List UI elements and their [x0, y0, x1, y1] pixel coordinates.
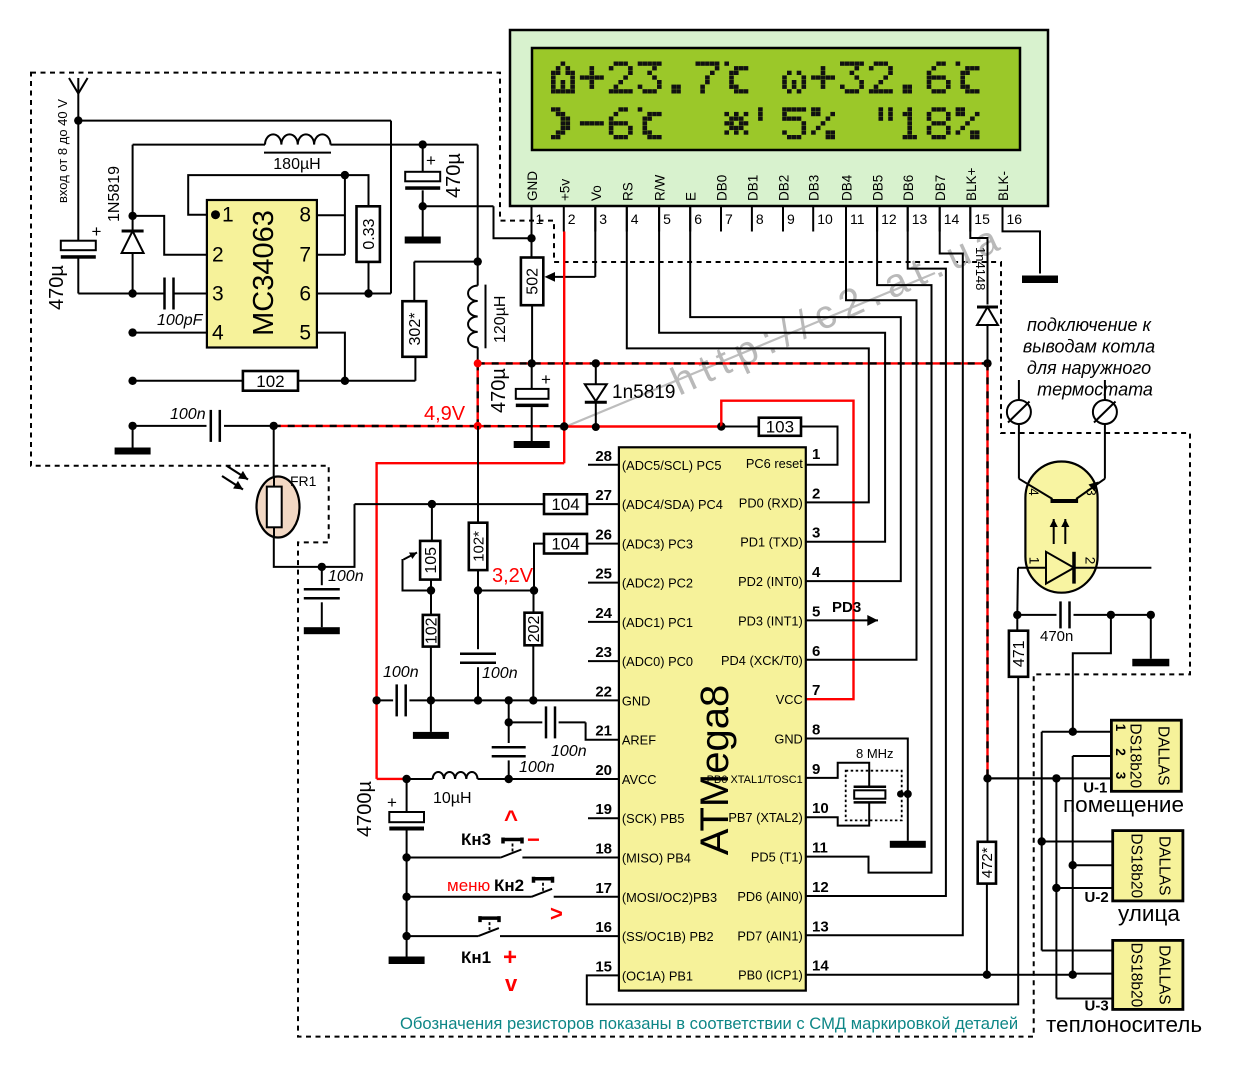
node 3.2V	[474, 586, 482, 594]
wire LCD gnd link	[423, 206, 532, 238]
svg-text:19: 19	[595, 801, 612, 818]
resistor 302*	[402, 262, 477, 357]
red rail drop	[477, 363, 479, 426]
label FR1	[290, 473, 317, 489]
svg-text:11: 11	[850, 211, 865, 227]
svg-text:v: v	[505, 971, 518, 996]
wire 3.2V row	[478, 590, 534, 592]
terminal right	[1093, 380, 1117, 424]
resistor 102 timing	[243, 371, 298, 391]
ground opto	[1132, 615, 1169, 666]
svg-text:4,9V: 4,9V	[424, 403, 466, 425]
label Кн2	[494, 876, 524, 895]
svg-text:5: 5	[812, 603, 820, 620]
U2 left pin labels	[595, 448, 723, 984]
svg-text:теплоноситель: теплоноситель	[1046, 1012, 1202, 1037]
opto led arrows	[1050, 519, 1070, 544]
svg-text:−: −	[527, 827, 540, 852]
node aref split	[505, 718, 513, 726]
wire U1 pin3	[988, 777, 1112, 779]
node U1 pin1	[1069, 728, 1077, 736]
capacitor 100pF	[157, 278, 204, 330]
capacitor 100n FR1	[304, 567, 364, 634]
svg-text:DS18b20: DS18b20	[1128, 833, 1145, 898]
red rail to sensors	[986, 363, 988, 778]
svg-text:472*: 472*	[979, 847, 996, 878]
svg-text:PD3 (INT1): PD3 (INT1)	[738, 613, 803, 628]
mark down red	[505, 971, 518, 996]
wire GND row	[377, 664, 619, 716]
label Кн3	[461, 830, 491, 849]
svg-text:+: +	[387, 793, 397, 812]
svg-text:4: 4	[212, 322, 224, 345]
wire XTAL2	[806, 802, 869, 825]
svg-text:+: +	[541, 370, 551, 389]
svg-text:1: 1	[222, 204, 234, 227]
svg-text:PD4 (XCK/T0): PD4 (XCK/T0)	[721, 653, 803, 668]
svg-text:DB4: DB4	[840, 174, 855, 201]
svg-text:для наружного: для наружного	[1027, 358, 1151, 378]
note text	[400, 1014, 1018, 1033]
capacitor 100n main	[133, 406, 274, 442]
svg-text:ATMega8: ATMega8	[693, 685, 737, 855]
svg-text:+: +	[426, 151, 436, 170]
chip U2 ATMega8	[619, 447, 806, 990]
svg-text:PD7 (AIN1): PD7 (AIN1)	[737, 928, 802, 943]
wire vdd chain	[1056, 778, 1112, 998]
svg-text:0.33: 0.33	[361, 218, 378, 249]
diode VD3 1n5819	[585, 363, 676, 431]
resistor 0.33	[357, 206, 380, 262]
svg-text:DALLAS: DALLAS	[1154, 726, 1171, 785]
svg-text:2: 2	[568, 211, 576, 227]
svg-text:120µH: 120µH	[492, 296, 509, 343]
label меню	[447, 876, 491, 895]
red wire to AVCC	[377, 463, 565, 779]
wire aref link	[508, 700, 510, 722]
inductor 10µH	[433, 772, 478, 807]
node pins78 top	[341, 171, 349, 179]
svg-text:102: 102	[256, 372, 284, 391]
red vcc drop from LCD pin2	[563, 232, 565, 464]
PD3 arrow	[806, 599, 878, 626]
svg-text:302*: 302*	[407, 313, 424, 346]
svg-text:>: >	[550, 901, 563, 926]
svg-text:28: 28	[595, 448, 612, 465]
svg-text:502: 502	[525, 268, 542, 295]
wiper 502	[545, 272, 596, 282]
svg-text:подключение к: подключение к	[1027, 315, 1152, 335]
capacitor 100n 3.2V	[460, 591, 518, 701]
svg-text:6: 6	[299, 283, 311, 306]
svg-text:помещение: помещение	[1063, 792, 1184, 817]
potentiometer 105	[420, 504, 440, 590]
svg-text:25: 25	[595, 566, 612, 583]
capacitor 470n	[1017, 601, 1151, 645]
U1 pin1 mark	[211, 210, 220, 219]
wire PC3 link	[534, 544, 619, 591]
terminal left	[1007, 380, 1031, 424]
svg-text:^: ^	[504, 806, 518, 833]
svg-text:DB3: DB3	[807, 175, 822, 201]
svg-text:выводам котла: выводам котла	[1023, 336, 1155, 356]
opto LED	[1018, 552, 1151, 584]
node avcc filter	[505, 775, 513, 783]
svg-text:470µ: 470µ	[488, 368, 510, 413]
label 3,2V	[492, 565, 534, 587]
node VD1 cathode branch	[128, 212, 136, 220]
label вход от 8 до 40 V	[55, 99, 70, 203]
svg-text:100n: 100n	[170, 406, 206, 423]
wire LCD pin1 down	[531, 206, 533, 258]
wire DB7 bus	[806, 206, 963, 935]
wire RS bus	[627, 206, 869, 502]
ground main rail	[115, 426, 151, 455]
svg-text:18: 18	[595, 841, 612, 858]
inductor L1 180µH	[264, 134, 331, 173]
node btn3	[402, 853, 410, 861]
svg-text:DB6: DB6	[901, 175, 916, 201]
wire VD1 to pin2	[133, 216, 207, 255]
svg-text:11: 11	[812, 840, 828, 857]
svg-text:6: 6	[694, 211, 702, 227]
node pin6	[364, 289, 372, 297]
svg-text:4: 4	[1026, 488, 1041, 496]
svg-text:AVCC: AVCC	[622, 772, 657, 787]
node 471 top	[1013, 611, 1021, 619]
node 502 top	[527, 234, 535, 242]
button Кн2	[407, 877, 619, 897]
wire pins7 8 tie	[317, 175, 345, 255]
resistor 202	[525, 591, 543, 701]
svg-text:DB0: DB0	[715, 175, 730, 201]
wire RW bus	[659, 206, 885, 542]
node 102 left	[128, 377, 136, 385]
node pin4 rail	[128, 328, 136, 336]
ground C3	[514, 441, 550, 449]
node 4.9V corner	[474, 422, 482, 430]
svg-text:10: 10	[817, 211, 833, 227]
red vcc loop	[721, 401, 853, 700]
svg-text:22: 22	[595, 683, 612, 700]
svg-text:(ADC2) PC2: (ADC2) PC2	[622, 576, 693, 591]
node FR1 filter	[318, 563, 326, 571]
svg-text:(OC1A) PB1: (OC1A) PB1	[622, 968, 693, 983]
FR1 light arrows	[222, 466, 248, 490]
button Кн1	[407, 916, 619, 936]
svg-text:улица: улица	[1118, 901, 1180, 926]
LCD text row 1	[551, 62, 980, 94]
svg-text:7: 7	[725, 211, 733, 227]
wire Vo down	[594, 206, 596, 277]
resistor 103	[721, 418, 837, 465]
svg-text:PB0 (ICP1): PB0 (ICP1)	[738, 968, 803, 983]
LCD screen	[532, 48, 1020, 150]
svg-text:8 MHz: 8 MHz	[856, 746, 894, 761]
node red rail start	[474, 359, 482, 367]
node VDD chain	[1052, 774, 1060, 782]
label 4,9V	[424, 403, 466, 425]
svg-text:103: 103	[766, 418, 794, 437]
svg-text:DB5: DB5	[871, 175, 886, 201]
svg-text:DALLAS: DALLAS	[1156, 836, 1173, 895]
node btn2	[402, 893, 410, 901]
svg-text:27: 27	[595, 487, 612, 504]
svg-text:14: 14	[944, 211, 960, 227]
node timing	[341, 377, 349, 385]
svg-text:U-2: U-2	[1085, 889, 1109, 906]
wire U2 pin1	[1038, 837, 1113, 845]
node 102 gnd	[427, 696, 435, 704]
svg-text:8: 8	[812, 722, 820, 739]
svg-text:(ADC3) PC3: (ADC3) PC3	[622, 536, 693, 551]
watermark line	[560, 273, 935, 429]
label Кн1	[461, 948, 491, 967]
svg-text:1: 1	[1113, 724, 1128, 732]
svg-text:GND: GND	[774, 732, 802, 747]
wire FR1 bottom	[274, 504, 355, 567]
sensor U-3 DS18b20	[1046, 940, 1202, 1037]
svg-text:PD5 (T1): PD5 (T1)	[751, 850, 803, 865]
svg-text:1n5819: 1n5819	[612, 382, 675, 403]
wire U3 pin2	[1073, 973, 1113, 975]
svg-text:17: 17	[595, 880, 612, 897]
svg-text:(ADC0) PC0: (ADC0) PC0	[622, 654, 693, 669]
LCD module body	[510, 30, 1048, 206]
wire E bus	[690, 206, 901, 581]
mark up red	[504, 806, 518, 833]
svg-text:100n: 100n	[328, 568, 364, 585]
wire Vin to C1	[77, 121, 79, 241]
svg-text:102: 102	[424, 617, 441, 644]
capacitor C3 470µ	[488, 363, 551, 440]
svg-text:5: 5	[299, 322, 311, 345]
U2 right pin labels	[707, 446, 830, 983]
svg-text:(SCK) PB5: (SCK) PB5	[622, 811, 685, 826]
svg-text:1: 1	[536, 211, 544, 227]
svg-text:PB6 XTAL1/TOSC1: PB6 XTAL1/TOSC1	[707, 774, 803, 786]
svg-text:100n: 100n	[551, 743, 587, 760]
svg-text:2: 2	[1113, 748, 1128, 756]
mark right red	[550, 901, 563, 926]
resistor 104 PC3	[544, 534, 587, 554]
svg-text:GND: GND	[525, 171, 540, 201]
svg-text:15: 15	[595, 958, 612, 975]
svg-text:Кн3: Кн3	[461, 830, 491, 849]
svg-text:13: 13	[912, 211, 928, 227]
svg-text:Кн1: Кн1	[461, 948, 491, 967]
svg-text:BLK+: BLK+	[964, 167, 979, 201]
svg-text:15: 15	[974, 211, 990, 227]
wire DB6 bus	[806, 206, 946, 896]
inductor L2 120µH	[468, 285, 509, 349]
node 3.2V right	[530, 586, 538, 594]
diode VD1 1N5819	[106, 145, 144, 294]
svg-text:23: 23	[595, 644, 612, 661]
svg-text:меню: меню	[447, 876, 491, 895]
svg-text:3: 3	[1113, 772, 1128, 780]
svg-text:8: 8	[756, 211, 764, 227]
wiper 105	[403, 553, 432, 591]
svg-text:термостата: термостата	[1037, 379, 1153, 399]
svg-text:DS18b20: DS18b20	[1128, 943, 1145, 1008]
node red rail end	[983, 774, 991, 782]
svg-text:1N5819: 1N5819	[106, 166, 123, 222]
opto pin labels bottom	[1027, 557, 1098, 565]
svg-text:14: 14	[812, 958, 829, 975]
wire C2 ground	[405, 206, 441, 243]
node Vin junction	[74, 116, 82, 124]
resistor 472*	[978, 778, 996, 974]
node DQ pullup	[983, 971, 991, 979]
node 105 top	[428, 500, 436, 508]
svg-text:2: 2	[812, 485, 820, 502]
svg-text:10: 10	[812, 800, 829, 817]
node aref branch	[505, 696, 513, 704]
svg-text:PD2 (INT0): PD2 (INT0)	[738, 574, 803, 589]
resistor 102 adc	[423, 591, 441, 701]
svg-text:3,2V: 3,2V	[492, 565, 534, 587]
wire gnd chain	[1042, 732, 1113, 951]
watermark text http://c2.at.ua	[664, 214, 1012, 404]
wire DB4 bus	[806, 206, 917, 660]
svg-text:470µ: 470µ	[443, 153, 465, 198]
svg-text:RS: RS	[620, 182, 635, 201]
wire VDD sensors	[988, 777, 1112, 779]
wire GND pin8	[806, 739, 926, 848]
wire dq chain	[1069, 756, 1077, 979]
svg-text:100n: 100n	[383, 664, 419, 681]
button Кн3	[407, 838, 619, 858]
red wire 4.9V row dashed	[274, 425, 565, 428]
wire PB1 route	[587, 677, 1018, 1005]
svg-text:Vo: Vo	[589, 185, 604, 201]
node LED right	[1147, 611, 1155, 619]
svg-text:13: 13	[812, 918, 829, 935]
node 302 junction	[474, 257, 482, 265]
svg-text:DB1: DB1	[745, 175, 760, 201]
svg-text:PD3: PD3	[832, 599, 861, 616]
svg-text:4700µ: 4700µ	[354, 781, 376, 837]
wire pin5 down	[317, 333, 345, 381]
label boiler text	[1023, 315, 1155, 400]
svg-text:470n: 470n	[1040, 628, 1073, 645]
wire DQ	[806, 974, 1073, 976]
svg-text:9: 9	[787, 211, 795, 227]
LCD pin labels	[525, 167, 1011, 201]
svg-text:104: 104	[551, 495, 579, 514]
svg-text:DALLAS: DALLAS	[1156, 945, 1173, 1004]
opto pin labels top	[1026, 488, 1099, 496]
svg-text:202: 202	[526, 616, 543, 643]
resistor 104 PC4	[544, 494, 587, 514]
svg-text:7: 7	[812, 682, 820, 699]
svg-text:PD1 (TXD): PD1 (TXD)	[740, 535, 803, 550]
svg-text:FR1: FR1	[290, 473, 317, 489]
crystal 8MHz	[854, 746, 894, 802]
wire pin6 row	[317, 293, 391, 295]
crystal case ground	[897, 790, 912, 798]
svg-text:DB7: DB7	[933, 175, 948, 201]
node avcc cap	[402, 775, 410, 783]
wire U2 pin2	[1069, 861, 1113, 869]
potentiometer 502	[521, 258, 543, 364]
svg-text:Обозначения резисторов показан: Обозначения резисторов показаны в соотве…	[400, 1014, 1018, 1033]
wire BLK- ground	[1003, 206, 1059, 283]
wire switch rail	[133, 144, 478, 146]
node btn1	[402, 932, 410, 940]
svg-text:1n4148: 1n4148	[973, 247, 988, 290]
svg-text:24: 24	[595, 605, 612, 622]
U1 pin numbers	[212, 204, 311, 345]
node 202 gnd	[529, 696, 537, 704]
svg-text:3: 3	[812, 525, 820, 542]
ground buttons	[389, 957, 425, 965]
wire LED left	[1016, 568, 1019, 615]
wire 0.33 to pin6	[368, 262, 370, 294]
svg-text:10µH: 10µH	[433, 790, 472, 807]
svg-text:Кн2: Кн2	[494, 876, 524, 895]
node avcc gnd cap	[372, 696, 380, 704]
capacitor 4700µ	[354, 779, 424, 858]
wire pin1 loop	[188, 175, 368, 215]
antenna input	[69, 78, 88, 121]
U2 NC stubs	[588, 465, 619, 818]
wire XTAL1	[806, 763, 869, 787]
wire Vin top rail	[78, 121, 391, 294]
node 502 bottom red	[528, 359, 536, 367]
svg-text:AREF: AREF	[622, 733, 656, 748]
svg-text:GND: GND	[622, 693, 650, 708]
svg-text:3: 3	[599, 211, 607, 227]
svg-text:(ADC5/SCL) PC5: (ADC5/SCL) PC5	[622, 458, 722, 473]
svg-text:E: E	[684, 192, 699, 201]
svg-text:2: 2	[1083, 557, 1098, 565]
svg-text:1: 1	[812, 446, 820, 463]
svg-text:5: 5	[663, 211, 671, 227]
svg-text:(SS/OC1B) PB2: (SS/OC1B) PB2	[622, 929, 714, 944]
svg-text:4: 4	[812, 564, 821, 581]
wire DB5 bus	[806, 206, 932, 873]
svg-text:2: 2	[212, 244, 224, 267]
crystal case box	[846, 771, 902, 821]
wire AVCC row	[407, 778, 619, 780]
svg-text:104: 104	[551, 535, 579, 554]
optocoupler U3 body	[1025, 462, 1097, 593]
node 470n mid	[1107, 611, 1115, 619]
wire PC4 row	[355, 503, 619, 505]
svg-text:100pF: 100pF	[157, 312, 204, 329]
node 100n gnd	[474, 696, 482, 704]
svg-text:PB7 (XTAL2): PB7 (XTAL2)	[728, 810, 802, 825]
resistor 471	[1009, 615, 1028, 677]
resistor 102*	[469, 426, 488, 591]
wire U1 pin2	[1073, 755, 1112, 757]
capacitor 100n AREF	[509, 706, 619, 760]
rail switched output	[477, 145, 479, 364]
chip U1 MC34063	[207, 200, 317, 348]
wire U1 pin1	[1042, 731, 1112, 733]
photoresistor FR1	[257, 477, 300, 538]
svg-text:100n: 100n	[519, 759, 555, 776]
svg-text:26: 26	[595, 526, 612, 543]
capacitor C1 470µ	[46, 222, 102, 310]
mark plus red	[503, 944, 517, 971]
svg-text:12: 12	[881, 211, 897, 227]
svg-text:+5v: +5v	[557, 179, 572, 201]
node 100n left	[128, 422, 136, 430]
LCD text row 2	[551, 107, 980, 139]
